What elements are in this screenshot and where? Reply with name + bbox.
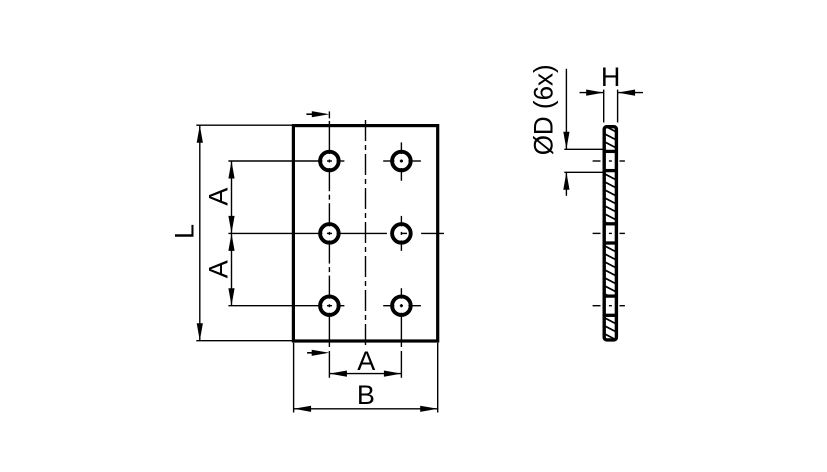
dimension A upper: arrowheads — [228, 161, 234, 179]
dimension A (vertical pitch): dimension line — [231, 161, 233, 306]
centerline: left hole column vertical (dash-dot through 3 holes) — [328, 111, 330, 377]
hole middle-left — [320, 224, 339, 243]
centerline: bottom hole row horizontal (also A-dim extension) — [228, 305, 421, 307]
svg-text:A: A — [204, 260, 234, 278]
hole middle-right — [392, 224, 411, 243]
svg-text:L: L — [169, 224, 199, 239]
dimension A horizontal: arrowheads — [329, 371, 347, 377]
svg-text:B: B — [357, 380, 375, 410]
dimension A lower: arrowheads — [228, 233, 234, 251]
dimension B: dimension line — [294, 408, 438, 410]
datum arrow bottom (points to hole column axis) — [307, 352, 314, 354]
svg-text:ØD (6x): ØD (6x) — [529, 64, 559, 155]
centerline: plate vertical axis (dash-dot) — [365, 120, 367, 346]
hole top-right — [392, 152, 411, 171]
side view hole slot top: edge lines — [603, 151, 618, 170]
dimension L: extension lines — [196, 125, 292, 341]
dimension D: dimension line tails — [565, 69, 567, 196]
plate outline (front view rectangle) — [293, 126, 437, 341]
dimension L: arrowheads — [197, 125, 203, 143]
hatching (section lines) — [603, 117, 618, 341]
hole bottom-left — [320, 296, 339, 315]
svg-text:A: A — [204, 188, 234, 206]
datum arrow top (points to hole column axis) — [306, 113, 313, 115]
side view plate outline — [604, 127, 616, 340]
dimension B: extension lines — [294, 343, 438, 413]
dimension H: extension lines — [604, 90, 618, 123]
dimension B: arrowheads — [294, 406, 312, 412]
dimension H: arrowheads — [586, 90, 604, 96]
side view hole slot middle: edge lines — [603, 224, 618, 243]
side view centerline row 2 (dash-dot) — [593, 232, 625, 234]
dimension D: extension lines — [564, 149, 602, 172]
side view centerline row 3 (dash-dot) — [593, 305, 625, 307]
side view centerline row 1 (dash-dot) — [593, 160, 625, 162]
dimension A (horizontal pitch): dimension line — [329, 373, 401, 375]
hole bottom-right — [392, 296, 411, 315]
centerline: top hole row horizontal (also A-dim extension) — [228, 160, 421, 162]
hole top-left — [320, 152, 339, 171]
centerline: right hole column vertical segments — [400, 142, 402, 377]
dimension D: arrowheads — [563, 132, 569, 150]
centerline: middle hole row horizontal across plate — [228, 232, 444, 234]
svg-text:A: A — [357, 346, 375, 376]
side view hole slot bottom: edge lines — [603, 296, 618, 315]
hole center dots — [400, 160, 403, 308]
dimension L: dimension line — [199, 125, 201, 341]
dimension H: dimension line tails — [580, 92, 644, 94]
svg-text:H: H — [601, 62, 621, 92]
